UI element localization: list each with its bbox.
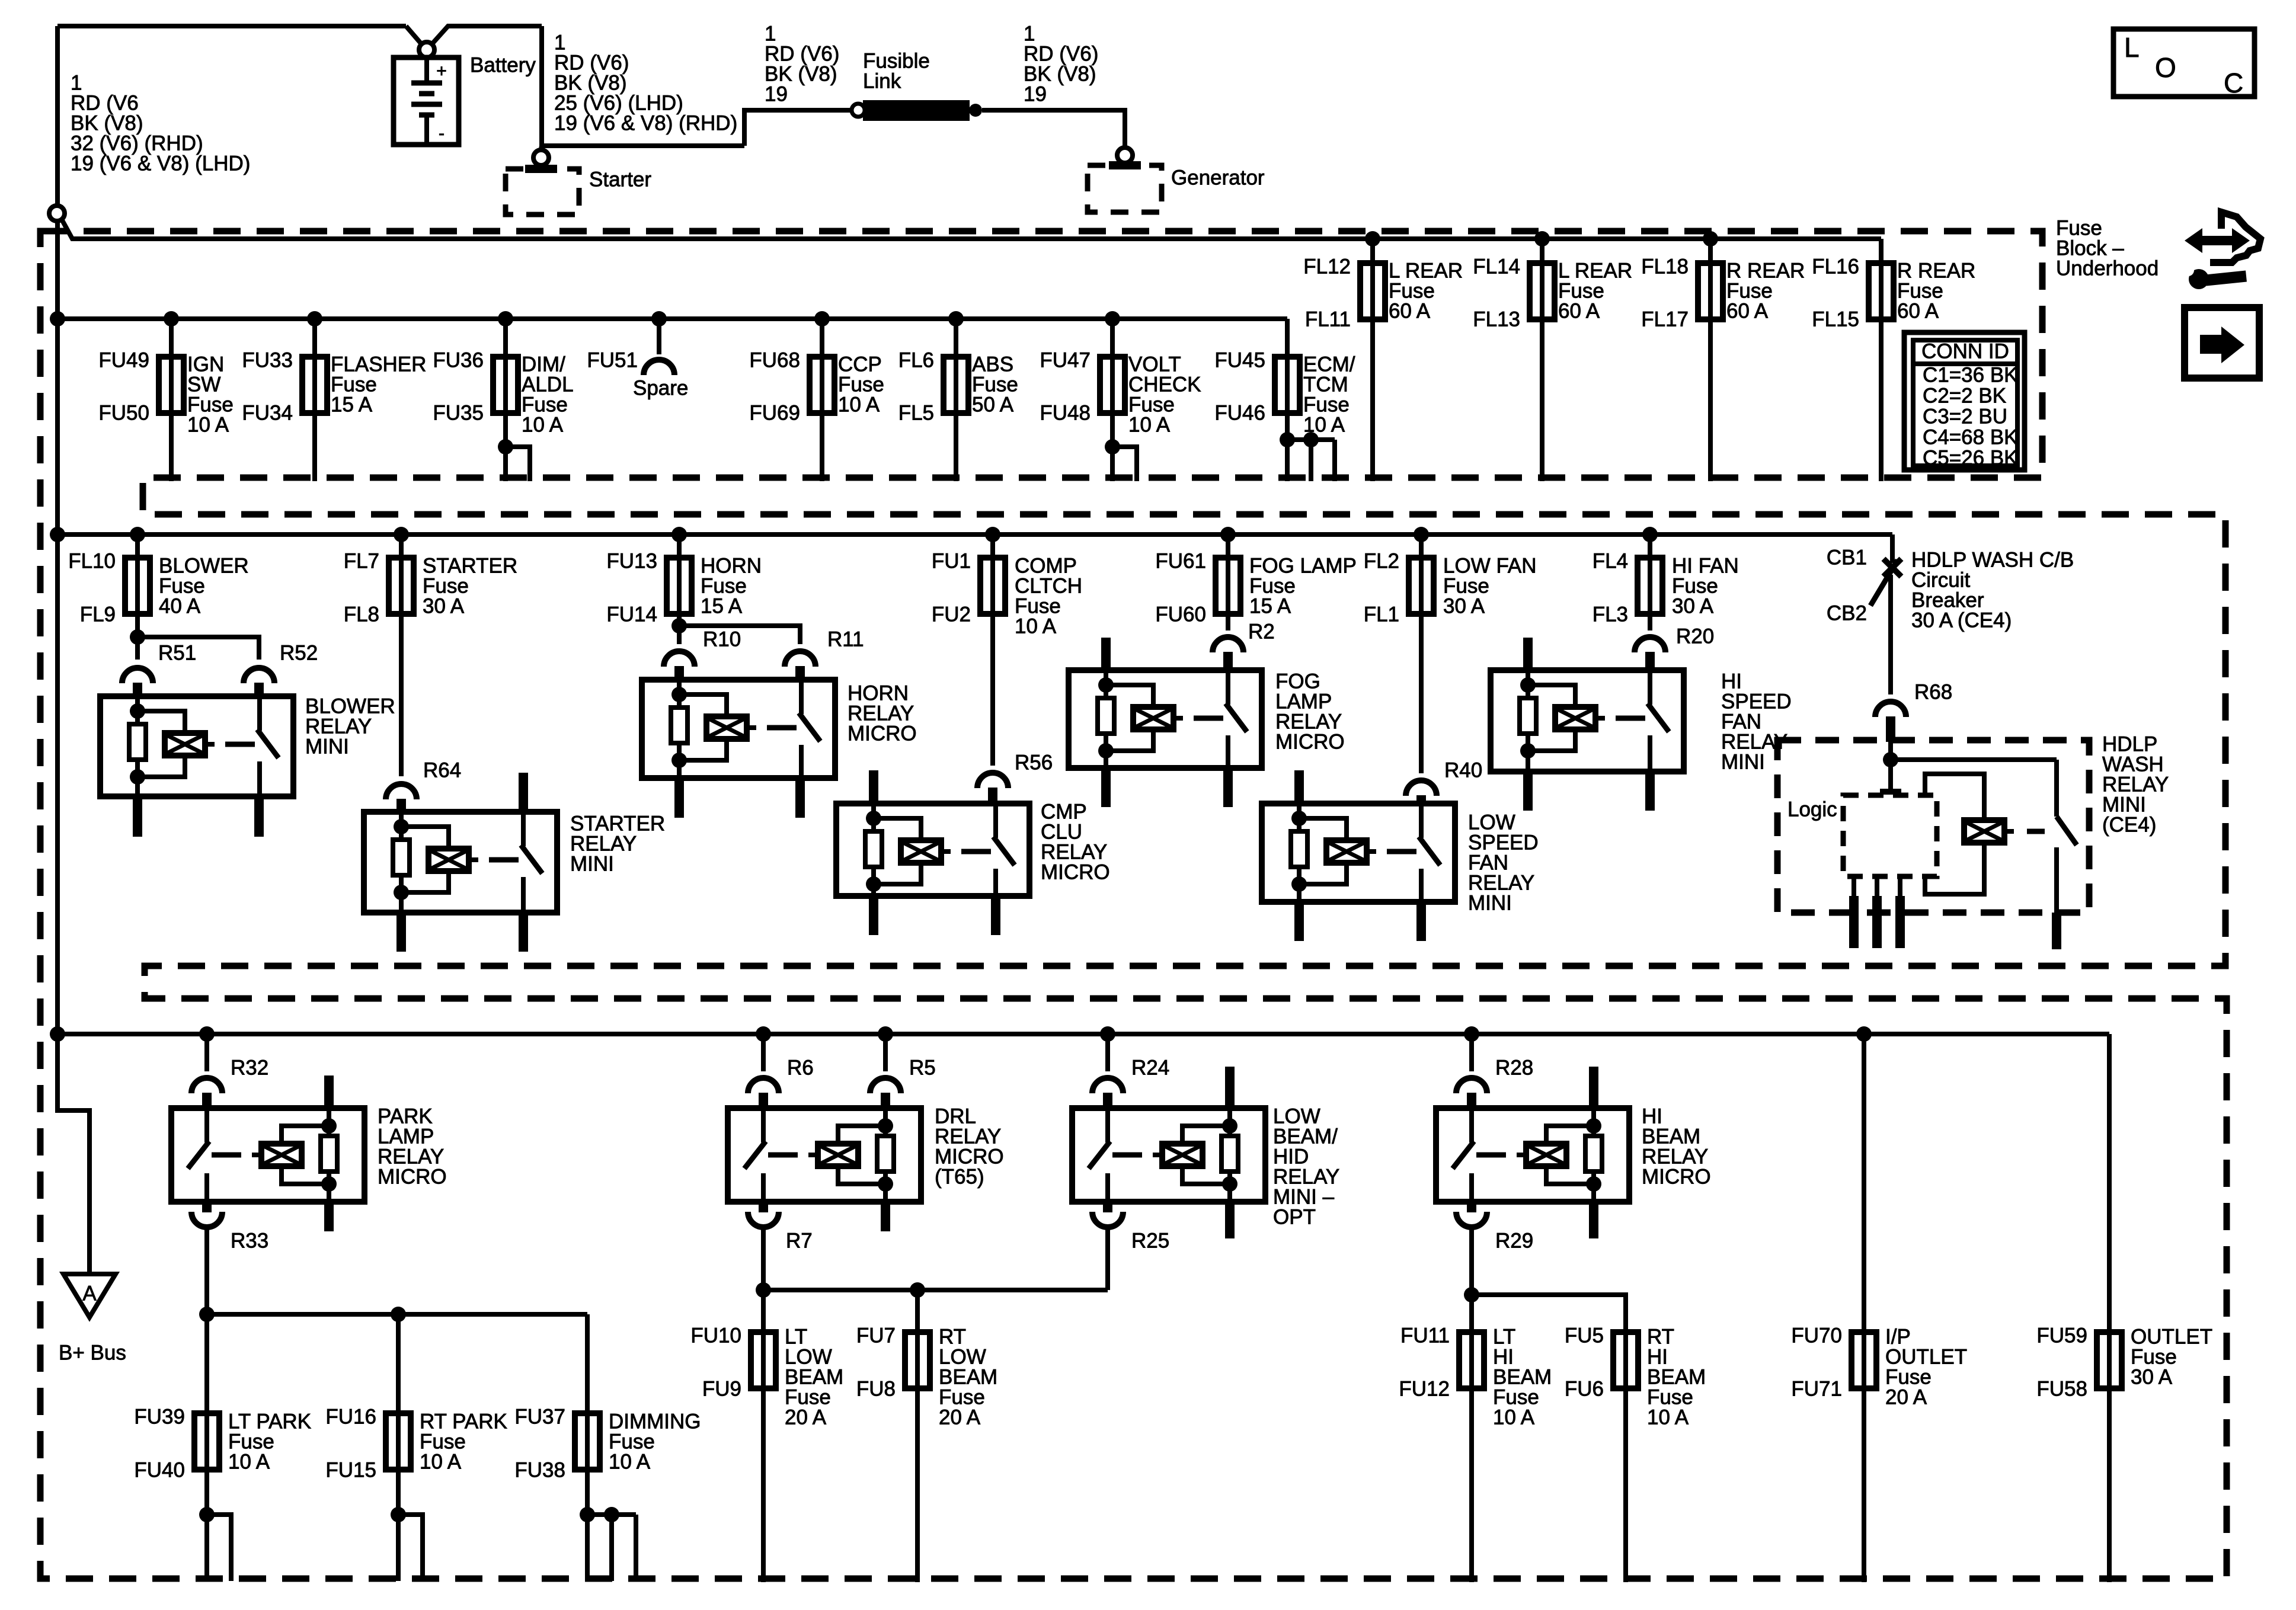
svg-text:30 A (CE4): 30 A (CE4) (1911, 609, 2012, 632)
fuse FU49/FU50 IGN (169, 319, 174, 481)
svg-text:R68: R68 (1914, 681, 1952, 704)
svg-text:10 A: 10 A (1647, 1406, 1689, 1429)
svg-text:R10: R10 (703, 628, 741, 651)
generator connector box (1088, 165, 1162, 212)
svg-text:FU16: FU16 (325, 1406, 376, 1429)
svg-text:60 A: 60 A (1558, 300, 1600, 323)
relay drl DRL RELAY MICRO (728, 1108, 921, 1202)
svg-text:CB2: CB2 (1827, 602, 1867, 625)
svg-text:R2: R2 (1248, 620, 1275, 644)
svg-text:CB1: CB1 (1827, 546, 1867, 569)
fuse FU68/FU69 CCP (820, 319, 824, 481)
wire: feed to R6 (756, 1026, 771, 1042)
svg-text:FL6: FL6 (898, 349, 934, 372)
svg-text:FL8: FL8 (344, 603, 379, 626)
pin R28 (1456, 1078, 1487, 1093)
svg-text:MINI: MINI (570, 853, 614, 876)
svg-text:C3=2 BU: C3=2 BU (1923, 405, 2007, 428)
svg-text:10 A: 10 A (420, 1451, 462, 1474)
svg-text:FU2: FU2 (932, 603, 971, 626)
svg-text:C5=26 BK: C5=26 BK (1923, 447, 2018, 470)
svg-text:40 A: 40 A (159, 595, 201, 618)
svg-text:C: C (2224, 68, 2243, 98)
pin R56 (977, 773, 1008, 788)
relay low speed fan LOW SPEED FAN RELAY MINI (1262, 804, 1455, 902)
svg-text:FL5: FL5 (898, 402, 934, 425)
svg-text:(CE4): (CE4) (2102, 814, 2156, 837)
svg-text:FU48: FU48 (1040, 402, 1091, 425)
svg-text:60 A: 60 A (1389, 300, 1431, 323)
hi speed fan relay bottom stubs (1523, 772, 1533, 811)
svg-text:R51: R51 (158, 642, 196, 665)
svg-text:50 A: 50 A (972, 393, 1014, 417)
svg-text:FU45: FU45 (1214, 349, 1265, 372)
svg-text:L: L (2124, 32, 2140, 63)
blower relay bottom stubs (133, 796, 142, 837)
fuse FU36/FU35 DIM/ (503, 319, 508, 481)
fuse FL14/FL13 L REAR (1534, 231, 1550, 247)
svg-text:FU11: FU11 (1400, 1324, 1450, 1347)
pin R64 (386, 784, 417, 799)
svg-text:19: 19 (765, 83, 788, 106)
hi speed fan relay top stub (1523, 638, 1533, 670)
svg-text:R64: R64 (423, 759, 461, 782)
logic box pins (1851, 876, 1856, 896)
fuse FU37/FU38 DIMMING (575, 1413, 600, 1470)
svg-text:R40: R40 (1444, 759, 1482, 782)
fuse FU61/FU60 FOG LAMP (1220, 527, 1236, 542)
svg-text:15 A: 15 A (331, 393, 373, 417)
fuse FU1/FU2 COMP CLTCH (985, 527, 1000, 542)
pin R5 (870, 1078, 901, 1093)
svg-text:MICRO: MICRO (1275, 731, 1345, 754)
svg-text:R20: R20 (1676, 625, 1714, 648)
fog relay bottom stubs (1101, 768, 1111, 807)
svg-text:FL15: FL15 (1812, 308, 1859, 331)
svg-text:30 A: 30 A (1443, 595, 1485, 618)
svg-text:FL7: FL7 (344, 550, 379, 573)
svg-text:FU39: FU39 (134, 1406, 185, 1429)
pin R33 (191, 1212, 222, 1227)
cmp clu relay top stub (869, 770, 878, 804)
icon: double arrow with wrench hand (2185, 228, 2250, 253)
svg-text:FU37: FU37 (514, 1406, 565, 1429)
pin R25 (1092, 1212, 1123, 1227)
pin R10 (664, 651, 695, 667)
relay cmp clu CMP CLU RELAY MICRO (836, 804, 1029, 896)
svg-text:MINI: MINI (1468, 892, 1512, 915)
fusible link FL (852, 104, 865, 117)
svg-text:FU47: FU47 (1040, 349, 1091, 372)
svg-text:60 A: 60 A (1897, 300, 1939, 323)
icon: arrow box (2185, 308, 2259, 378)
logic box (1843, 795, 1937, 876)
node: bottom bus left junction (50, 1026, 65, 1042)
svg-text:FU5: FU5 (1565, 1324, 1604, 1347)
fuse FU13/FU14 HORN (671, 527, 687, 542)
wire: low beam branch (763, 1288, 1108, 1292)
svg-text:10 A: 10 A (838, 393, 880, 417)
node: main feed junction (49, 206, 65, 221)
wire: step up to fusible link (744, 110, 852, 146)
wire: hi beam branch (1472, 1295, 1626, 1582)
svg-text:10 A: 10 A (187, 414, 229, 437)
svg-text:20 A: 20 A (939, 1406, 981, 1429)
fuse FU39/FU40 LT PARK (194, 1413, 219, 1470)
svg-text:10 A: 10 A (228, 1451, 270, 1474)
relay horn HORN RELAY MICRO (642, 680, 835, 778)
wire: outlet drop (2107, 1034, 2112, 1582)
wire: starter feed horizontal (542, 143, 744, 148)
wire: top horizontal bus to battery and starter (57, 24, 406, 28)
svg-text:FL16: FL16 (1812, 255, 1859, 279)
svg-text:FU13: FU13 (606, 550, 657, 573)
wire: ip outlet drop (1856, 1026, 1872, 1042)
node: battery positive terminal (419, 42, 434, 57)
svg-text:R7: R7 (786, 1230, 813, 1253)
wire: feed to R28 (1464, 1026, 1479, 1042)
svg-text:FU12: FU12 (1399, 1378, 1450, 1401)
wire: middle bus (57, 532, 1892, 537)
fuse FU70/FU71 I/P OUTLET (1851, 1332, 1876, 1388)
svg-text:Underhood: Underhood (2056, 257, 2159, 280)
wire: horn fuse to relay (671, 618, 687, 633)
svg-text:FU40: FU40 (134, 1459, 185, 1482)
svg-text:FL13: FL13 (1473, 308, 1520, 331)
relay fog FOG LAMP RELAY MICRO (1069, 670, 1262, 768)
svg-text:FL11: FL11 (1305, 308, 1351, 331)
fuse FL2/FL1 LOW FAN (1414, 527, 1429, 542)
svg-text:15 A: 15 A (701, 595, 743, 618)
svg-text:MINI: MINI (305, 735, 349, 758)
pin R29 (1456, 1212, 1487, 1227)
wire: rear fuse feed line (62, 219, 1881, 239)
svg-text:R33: R33 (231, 1230, 268, 1253)
svg-text:FL17: FL17 (1641, 308, 1689, 331)
svg-text:FU8: FU8 (856, 1378, 896, 1401)
svg-text:FU14: FU14 (606, 603, 657, 626)
svg-text:(T65): (T65) (935, 1166, 984, 1189)
wire: branch to R11 (679, 626, 800, 644)
relay hi speed fan HI SPEED FAN RELAY MINI (1491, 670, 1684, 772)
pin R32 (191, 1078, 222, 1093)
svg-text:FU38: FU38 (514, 1459, 565, 1482)
svg-text:FL1: FL1 (1364, 603, 1399, 626)
fuse FU59/FU58 OUTLET (2097, 1332, 2122, 1388)
relay park lamp PARK LAMP RELAY MICRO (171, 1108, 364, 1202)
pin R40 (1406, 780, 1437, 796)
svg-text:30 A: 30 A (423, 595, 465, 618)
low speed fan relay top stub (1294, 770, 1304, 804)
svg-text:19 (V6 & V8) (RHD): 19 (V6 & V8) (RHD) (554, 112, 737, 135)
svg-text:C1=36 BK: C1=36 BK (1923, 364, 2018, 387)
svg-text:C2=2 BK: C2=2 BK (1923, 385, 2006, 408)
svg-text:R29: R29 (1495, 1230, 1533, 1253)
svg-text:R25: R25 (1131, 1230, 1169, 1253)
wire: blower fuse to relay (130, 629, 145, 645)
fuse FU7/FU8 RT LOW BEAM (905, 1332, 930, 1388)
B+ bus terminal A (63, 1274, 116, 1317)
svg-text:MICRO: MICRO (1041, 861, 1110, 884)
drl right pin bottom stub (881, 1202, 890, 1231)
fog relay top stub (1101, 638, 1111, 670)
relay starter STARTER RELAY MINI (364, 812, 557, 913)
svg-text:+: + (436, 62, 447, 81)
svg-text:OPT: OPT (1273, 1206, 1316, 1229)
svg-text:15 A: 15 A (1249, 595, 1291, 618)
svg-text:FU10: FU10 (690, 1324, 741, 1347)
svg-text:R24: R24 (1131, 1057, 1169, 1080)
svg-text:19: 19 (1024, 83, 1047, 106)
wire: R25 to branch (1105, 1227, 1110, 1290)
svg-text:19 (V6 & V8) (LHD): 19 (V6 & V8) (LHD) (71, 152, 250, 175)
pin R7 (748, 1212, 779, 1227)
svg-text:30 A: 30 A (1672, 595, 1714, 618)
fuse FU16/FU15 RT PARK (386, 1413, 411, 1470)
svg-text:Starter: Starter (589, 168, 651, 191)
wire: feed to R24 (1100, 1026, 1115, 1042)
svg-text:FL18: FL18 (1641, 255, 1689, 279)
wire: B+ bus drop (57, 1034, 89, 1274)
wire: main left vertical feed from top (55, 26, 60, 206)
svg-text:MICRO: MICRO (848, 722, 917, 745)
svg-text:FU69: FU69 (749, 402, 800, 425)
svg-text:FL2: FL2 (1364, 550, 1399, 573)
svg-text:Battery: Battery (470, 54, 536, 77)
wire: R7 to low beam fuses (761, 1227, 766, 1582)
wire: feed to R32 (199, 1026, 215, 1042)
battery B1 (394, 57, 459, 145)
hdlp coil loop (1925, 846, 1984, 894)
fuse FL16/FL15 R REAR (1879, 239, 1884, 481)
svg-text:FU50: FU50 (98, 402, 149, 425)
fuse FL4/FL3 HI FAN (1642, 527, 1658, 542)
pin R51 (122, 668, 153, 683)
horn relay bottom stubs (674, 778, 684, 818)
fuse FU47/FU48 VOLT (1110, 319, 1115, 481)
starter relay bottom stubs (396, 913, 406, 952)
starter connector box (506, 169, 579, 215)
relay low beam hid LOW BEAM/HID RELAY MINI (1072, 1108, 1265, 1202)
node: starter terminal (533, 150, 549, 165)
svg-text:FU70: FU70 (1791, 1324, 1842, 1347)
svg-text:FL12: FL12 (1303, 255, 1351, 279)
svg-text:FU36: FU36 (433, 349, 484, 372)
fuse FU10/FU9 LT LOW BEAM (751, 1332, 776, 1388)
svg-text:FU59: FU59 (2036, 1324, 2087, 1347)
relay hi beam HI BEAM RELAY MICRO (1436, 1108, 1629, 1202)
svg-text:R56: R56 (1015, 751, 1053, 774)
relay hdlp wash HDLP WASH RELAY MINI dashed box (1777, 740, 2089, 913)
fuse FL10/FL9 BLOWER (130, 527, 145, 542)
fuse FL6/FL5 ABS (954, 319, 958, 481)
svg-text:FU51: FU51 (587, 349, 638, 372)
pin R68 (1875, 702, 1906, 717)
relay blower BLOWER RELAY MINI (100, 696, 293, 796)
svg-text:FU49: FU49 (98, 349, 149, 372)
svg-text:10 A: 10 A (1128, 414, 1171, 437)
svg-text:FU9: FU9 (702, 1378, 741, 1401)
fuse FU33/FU34 FLASHER (312, 319, 317, 481)
fuse FL18/FL17 R REAR (1703, 231, 1718, 247)
low beam relay right stubs (1225, 1067, 1235, 1108)
wire: bottom bus (57, 1032, 2109, 1036)
rt park below (391, 1507, 406, 1522)
svg-text:FU68: FU68 (749, 349, 800, 372)
fuse FU11/FU12 LT HI BEAM (1459, 1332, 1484, 1388)
svg-text:Link: Link (863, 70, 901, 93)
svg-text:-: - (439, 124, 445, 143)
wire: row1 fuse bus (57, 316, 1287, 321)
lt park below (199, 1507, 215, 1522)
svg-text:FL10: FL10 (68, 550, 116, 573)
fuse FU5/FU6 RT HI BEAM (1613, 1332, 1638, 1388)
pin R2 (1213, 637, 1243, 652)
pin R6 (748, 1078, 779, 1093)
wire: fusible link to generator (982, 110, 1125, 148)
svg-text:FU7: FU7 (856, 1324, 896, 1347)
svg-text:Logic: Logic (1787, 798, 1837, 821)
node: middle bus left junction (50, 527, 65, 542)
svg-text:R5: R5 (909, 1057, 936, 1080)
hdlp wash relay internals (1888, 740, 1893, 792)
fuse FU45/FU46 ECM/TCM (1285, 319, 1290, 440)
park relay right stubs (324, 1076, 334, 1108)
dimming below (580, 1507, 595, 1522)
wire: branch to R52 (137, 637, 259, 660)
CONN ID table (1904, 332, 2025, 470)
svg-text:R32: R32 (231, 1057, 268, 1080)
svg-text:FU33: FU33 (242, 349, 293, 372)
svg-text:FL4: FL4 (1593, 550, 1628, 573)
svg-text:B+ Bus: B+ Bus (59, 1342, 126, 1365)
svg-text:20 A: 20 A (785, 1406, 827, 1429)
svg-text:FU71: FU71 (1791, 1378, 1842, 1401)
node: generator terminal (1117, 148, 1133, 163)
svg-text:MICRO: MICRO (1642, 1166, 1711, 1189)
svg-text:10 A: 10 A (609, 1451, 651, 1474)
circuit breaker CB1/CB2 HDLP WASH C/B (1884, 559, 1901, 577)
svg-text:A: A (82, 1282, 97, 1305)
pin R11 (785, 651, 816, 667)
svg-text:MICRO: MICRO (378, 1166, 447, 1189)
starter relay switch top stub (519, 773, 528, 812)
svg-text:FU35: FU35 (433, 402, 484, 425)
wire: bus corner to circuit breaker (1890, 534, 1895, 563)
svg-text:CONN ID: CONN ID (1921, 340, 2009, 363)
svg-text:FL14: FL14 (1473, 255, 1520, 279)
svg-text:10 A: 10 A (1303, 414, 1345, 437)
wire: R29 to hi beam fuses (1469, 1227, 1474, 1582)
svg-text:R28: R28 (1495, 1057, 1533, 1080)
hi beam relay right stubs (1589, 1067, 1598, 1108)
pin R52 (244, 668, 274, 683)
wire: park branch (207, 1312, 587, 1317)
pin R20 (1635, 637, 1665, 652)
wire: battery to starter drop (541, 26, 542, 149)
low speed fan relay bottom stubs (1294, 902, 1304, 941)
svg-text:10 A: 10 A (1015, 615, 1057, 638)
fuse FL7/FL8 STARTER (394, 527, 409, 542)
svg-text:R52: R52 (280, 642, 318, 665)
svg-text:C4=68 BK: C4=68 BK (1923, 426, 2018, 449)
svg-text:FU58: FU58 (2036, 1378, 2087, 1401)
svg-text:FL9: FL9 (80, 603, 116, 626)
node: bus junction left (50, 311, 65, 327)
svg-text:20 A: 20 A (1885, 1386, 1927, 1409)
wire: R33 down to park fuses (204, 1227, 209, 1581)
svg-text:60 A: 60 A (1726, 300, 1769, 323)
LOC box (2113, 29, 2255, 97)
svg-text:MINI: MINI (1721, 751, 1765, 774)
svg-text:30 A: 30 A (2131, 1366, 2173, 1389)
svg-text:FU34: FU34 (242, 402, 293, 425)
svg-text:FU1: FU1 (932, 550, 971, 573)
svg-text:R6: R6 (787, 1057, 814, 1080)
svg-text:Spare: Spare (633, 377, 688, 400)
svg-text:FU61: FU61 (1155, 550, 1206, 573)
cmp clu relay bottom stubs (869, 896, 878, 935)
fuse block underhood dashed outline (40, 231, 2227, 1579)
fuse FL12/FL11 L REAR (1365, 231, 1380, 247)
svg-text:FU46: FU46 (1214, 402, 1265, 425)
svg-text:10 A: 10 A (522, 414, 564, 437)
svg-text:Generator: Generator (1171, 167, 1265, 190)
svg-text:FU6: FU6 (1565, 1378, 1604, 1401)
svg-text:10 A: 10 A (1493, 1406, 1535, 1429)
svg-text:O: O (2155, 52, 2176, 83)
wire: feed to R5 (878, 1026, 893, 1042)
svg-text:FU15: FU15 (325, 1459, 376, 1482)
svg-text:FL3: FL3 (1593, 603, 1628, 626)
pin R24 (1092, 1078, 1123, 1093)
spare terminal FU51 (657, 319, 661, 354)
svg-text:R11: R11 (827, 628, 864, 651)
svg-text:FU60: FU60 (1155, 603, 1206, 626)
